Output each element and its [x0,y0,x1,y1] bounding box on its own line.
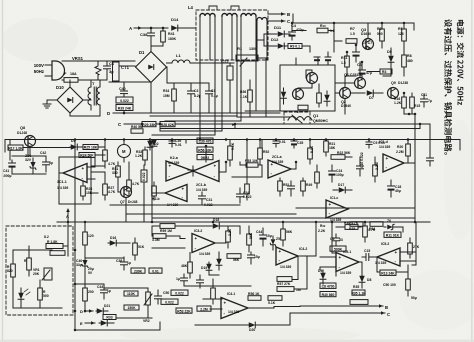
resistor R51b 200 [83,288,88,301]
wire snubber top [166,67,168,83]
svg-text:100µ: 100µ [336,173,344,177]
resistor R30 4.7K [103,150,108,161]
transistor Q7 Dr J48 [121,187,132,198]
capacitor C41 1000u [9,162,16,164]
wire D10 top to AC [69,80,71,87]
svg-text:C44: C44 [256,230,262,234]
op-amp IC1-1 1/4 339 (mirrored) [63,164,87,183]
capacitor C1 3u [106,61,108,66]
svg-text:D: D [80,309,83,314]
capacitor C39 0.01 [169,140,175,142]
svg-text:M: M [122,149,126,154]
wire top rail [293,22,414,24]
wire rail right [333,31,335,52]
svg-text:R34: R34 [163,89,169,93]
svg-text:230K: 230K [134,269,143,273]
wire D1 bottom to D bus [150,83,152,113]
svg-text:B: B [385,305,388,310]
zener ZD1 32V [30,162,36,170]
svg-text:4.7K: 4.7K [108,190,116,194]
svg-text:C6: C6 [357,63,362,67]
op-amp IC1-c [326,200,348,218]
svg-text:500: 500 [43,294,49,298]
svg-text:D16: D16 [110,236,116,240]
svg-text:+: + [279,249,282,254]
svg-text:3C1-1: 3C1-1 [57,180,67,184]
resistor R36 4.7K [345,225,358,230]
resistor R50 5.1K [308,148,313,159]
svg-text:T: T [92,81,95,86]
resistor R22 56K [331,155,345,160]
svg-text:2.2M: 2.2M [375,162,379,170]
resistor R36 1.1K [248,90,253,102]
wire bus mid [160,128,420,130]
svg-text:1/4 339: 1/4 339 [168,161,179,165]
svg-text:1/4 339: 1/4 339 [272,160,283,164]
resistor Rmid2 [197,147,213,152]
wire under IC1-c [296,207,415,209]
wire mid rail 218 [152,217,415,219]
svg-text:D1540: D1540 [341,104,351,108]
svg-text:+: + [386,156,389,161]
capacitor C8 4700 [320,283,336,288]
svg-text:R 1.8K: R 1.8K [47,240,58,244]
svg-text:C42: C42 [40,151,46,155]
svg-text:5V: 5V [88,271,93,275]
wire left mid [12,155,46,157]
svg-text:C: C [387,312,390,317]
svg-text:820: 820 [7,269,13,273]
capacitor C15u [248,254,255,256]
svg-text:D1J38: D1J38 [398,81,408,85]
svg-text:IC5-2: IC5-2 [381,242,389,246]
current transformer CT1 [113,62,120,81]
svg-text:-: - [395,259,397,264]
capacitor C30 47u link [232,176,262,178]
svg-text:R30 4.7K: R30 4.7K [344,221,359,225]
wire IC4-1 in [203,298,222,300]
svg-text:18A: 18A [70,72,77,76]
resistor R40 5M [131,129,143,133]
svg-text:D8: D8 [367,278,371,282]
svg-text:200: 200 [88,290,94,294]
svg-text:126: 126 [398,32,404,36]
node B [268,13,285,15]
resistor R24 50K [79,153,95,158]
svg-text:D: D [107,111,110,116]
resistor Rs 1.8K [46,244,63,249]
svg-text:1000µ: 1000µ [2,174,12,178]
svg-text:110K: 110K [127,292,135,296]
svg-text:150K: 150K [127,306,136,310]
svg-text:120: 120 [88,234,94,238]
svg-text:R32: R32 [320,224,326,228]
svg-text:R33: R33 [106,316,112,320]
resistor R35b 1.1K [352,290,365,295]
wire D20 to C rail [289,314,291,326]
wire igbt stubs [295,58,297,65]
svg-text:33: 33 [339,238,343,242]
wire D5 to R3 row [390,70,392,76]
svg-text:C: C [118,122,122,127]
AC plug P1 [52,61,65,80]
svg-text:8.2: 8.2 [44,235,49,239]
node C bottom [290,312,385,314]
wire opamp feeds [87,166,95,168]
capacitor C18 40u [388,185,395,187]
svg-text:R10: R10 [320,24,326,28]
wire bottom-left links [85,257,124,259]
svg-text:K2-b: K2-b [152,197,160,201]
resistor R104 820 [11,264,16,277]
resistor R28 62K [160,122,175,127]
svg-text:18K: 18K [329,146,336,150]
svg-text:R15: R15 [414,104,420,108]
diode D8 [359,276,365,283]
svg-text:15µ: 15µ [254,255,260,259]
resistor R53 10K [246,163,258,167]
resistor R25 18K [83,145,98,150]
resistor R59 1M [160,224,175,229]
svg-text:L4: L4 [188,5,194,10]
svg-text:VRS1: VRS1 [72,56,84,61]
potentiometer VR1 20K [44,268,52,280]
svg-text:R57 27K: R57 27K [277,282,291,286]
svg-text:D20: D20 [249,328,255,332]
wire D11 D12 feeds [264,33,271,35]
svg-text:-: - [82,175,84,180]
svg-text:+: + [224,300,227,305]
svg-text:R36: R36 [240,90,246,94]
wire Q3 collector to rail [367,23,369,39]
svg-text:1/4 339: 1/4 339 [379,145,390,149]
svg-text:50µ: 50µ [411,296,417,300]
wire R36 links [336,226,345,228]
svg-text:D10: D10 [56,85,64,90]
svg-text:1/4 339: 1/4 339 [228,310,239,314]
capacitor C9 0.01 [366,141,372,143]
op-amp IC5-2 (mirrored) [377,248,400,266]
svg-text:DrJ48: DrJ48 [128,200,138,204]
svg-text:F: F [64,71,67,76]
wire driver joins [404,113,415,115]
wire vertical x75 [74,140,76,331]
wires IGBT internal [311,84,313,89]
capacitor C47 33 [333,237,340,239]
svg-text:Z5: Z5 [276,237,280,241]
svg-text:40µ: 40µ [395,189,401,193]
svg-text:2.2K: 2.2K [318,229,326,233]
capacitor C15 [365,254,367,261]
resistor R29b 5.1K [228,146,233,160]
svg-text:1.2K: 1.2K [394,101,402,105]
svg-text:R11 91K: R11 91K [386,234,400,238]
scan edge artifacts [2,0,4,342]
svg-text:-: - [195,245,197,250]
svg-text:0.022: 0.022 [142,172,146,181]
svg-text:B: B [287,12,290,17]
resistor R102 500 [38,288,43,300]
svg-text:1/4 339: 1/4 339 [280,265,291,269]
op-amp IC1-d [383,154,404,172]
svg-text:IC1-d: IC1-d [379,140,388,144]
svg-text:180K: 180K [168,37,177,41]
svg-text:1µ: 1µ [127,261,131,265]
svg-text:R56 1K: R56 1K [248,292,260,296]
wire IC5-2 in from rail [400,251,416,253]
svg-text:R22 56K: R22 56K [337,151,351,155]
capacitor C49 0.022 [161,299,178,304]
svg-text:R49: R49 [306,183,312,187]
svg-text:+: + [195,236,198,241]
resistor R29 33K [142,122,156,127]
wire right rail bottom [415,222,417,265]
resistor R49 10K [301,181,306,191]
resistor R55 5.1K [268,296,282,301]
svg-text:R52: R52 [263,150,269,154]
diode D2 [147,141,153,148]
svg-text:0.01: 0.01 [279,140,286,144]
svg-text:C31: C31 [206,198,212,202]
svg-text:C50: C50 [163,291,169,295]
svg-text:Q9: Q9 [391,81,396,85]
resistor R26 15K [81,186,86,196]
svg-text:C15: C15 [364,249,370,253]
svg-text:1/4 339: 1/4 339 [340,271,351,275]
svg-text:-: - [279,258,281,263]
svg-text:4.7K: 4.7K [132,182,140,186]
svg-text:D21: D21 [104,304,110,308]
zener Z6 [387,224,394,230]
diode D9b [320,273,326,280]
svg-text:100V: 100V [34,63,44,68]
resistor R48L [152,186,157,196]
wire diode pair join [209,274,219,276]
resistor R17 1.0K [8,145,23,150]
resistor R2.2M [197,306,211,311]
svg-text:3.3M: 3.3M [152,238,160,242]
resistor R15b 50u [406,279,411,290]
svg-text:C38: C38 [116,259,122,263]
wire R13 link [376,266,378,272]
wire IC5-1 in [320,256,336,258]
svg-text:-: - [271,171,273,176]
winding L4-4 [257,18,267,21]
svg-text:D1640: D1640 [361,32,371,36]
resistor R23 [315,172,320,183]
resistor R110K [124,291,138,296]
capacitor C24 100u [329,170,336,172]
svg-text:QM50HC: QM50HC [313,119,328,123]
svg-text:2C1-a: 2C1-a [272,155,282,159]
svg-text:R8: R8 [407,54,412,58]
resistor R46 48K [188,262,193,273]
wire IC1-1 underline [58,182,60,193]
svg-text:+: + [82,166,85,171]
wire R17 to D3 [23,147,70,149]
svg-text:Q7: Q7 [120,200,125,204]
resistor R80 230K [131,268,145,273]
node A arrow into box [67,222,69,226]
resistor R31 330 [116,166,121,177]
op-amp IC1-1 box [59,157,91,204]
svg-text:2.2M: 2.2M [396,150,404,154]
svg-text:R3: R3 [382,70,386,74]
svg-text:0.022: 0.022 [165,301,174,305]
capacitor C36 0.01 [273,140,279,142]
IGBT module Q1 box [280,65,335,111]
diode D16 [110,240,117,246]
wire IC4-2 out [298,255,316,257]
capacitor C33 [288,185,295,187]
junction dots [150,27,153,30]
capacitor C44 1u [101,289,108,291]
wire IC3-2 in [166,235,180,237]
svg-text:7µ: 7µ [428,99,432,103]
svg-text:R20: R20 [397,145,403,149]
wire IC4-1 out to B [248,307,274,309]
wire D10 out [83,99,91,101]
op-amp IC3-2 [192,234,215,253]
svg-text:D17: D17 [338,183,344,187]
svg-text:+: + [214,163,217,168]
svg-text:C44: C44 [97,285,103,289]
svg-text:480: 480 [407,59,413,63]
svg-text:2.2M: 2.2M [200,307,208,311]
svg-text:33µ: 33µ [76,263,82,267]
transistor Q1-a [307,73,318,84]
resistor R43 56K [227,254,241,259]
capacitor C3 8.2u [188,90,195,92]
wire D10 to ground [47,99,57,101]
svg-text:0.01: 0.01 [152,269,159,273]
capacitor C46 [197,279,204,281]
resistor R45 56K [247,234,252,245]
resistor R37 4.7K [363,226,368,237]
capacitor C2 0.1u [206,90,213,92]
wire misc verticals to bus [171,140,173,148]
capacitor C0.022b [155,295,162,297]
resistor R21 18K [324,141,329,152]
resistor R57 27K [277,277,292,282]
resistor R3 [380,69,392,74]
node C [268,20,285,22]
svg-text:0.1µ: 0.1µ [211,94,218,98]
resistor R58 1M [277,287,294,292]
svg-text:4.7K: 4.7K [368,228,376,232]
capacitor C34 0.022 [237,193,244,195]
op-amp IC5-1 [336,253,359,272]
svg-text:C41: C41 [3,169,9,173]
resistor R13 24K [380,270,396,275]
capacitor C43 0.022 [141,170,147,182]
resistor Rb2 [370,222,383,227]
svg-text:48K: 48K [181,264,188,268]
svg-text:D14: D14 [171,17,179,22]
svg-text:+: + [395,250,398,255]
svg-text:-: - [182,195,184,200]
resistor R150K [124,305,139,310]
diode D19 [206,264,212,271]
diode D20 [249,322,256,328]
resistor R19 2.2M [373,165,378,176]
op-amp IC1-b (mirrored) [193,161,219,182]
resistor R9 0.1 [288,44,302,49]
wire Q8 emitter [29,147,31,157]
resistor R70 51K [133,243,138,255]
node B bottom [300,305,383,307]
wire right rail [414,126,416,222]
svg-text:-: - [169,174,171,179]
capacitor C30 470 [197,138,213,143]
svg-text:C50 100: C50 100 [383,283,396,287]
wire IC2 cluster [192,166,194,176]
resistor Rs2 [50,251,65,256]
resistor R40b 860 [320,292,336,297]
resistor R15 [410,97,415,108]
resistor R101 240 [27,258,32,270]
wire vertical x152 [151,140,153,223]
svg-text:R40 860: R40 860 [322,293,335,297]
winding L4-2 [222,14,237,17]
potentiometer VR2 10K [146,292,151,305]
wire rail right drop [459,140,461,151]
zener Z5 [270,239,276,246]
wire Q6 collector up [359,62,361,78]
svg-text:R35: R35 [353,285,359,289]
op-amp IC2-b (mirrored) [165,185,187,202]
resistor R44 2.2K [226,231,231,242]
resistor Rlong [350,300,368,305]
svg-text:D7: D7 [369,96,374,100]
resistor R17b 27K [408,243,413,254]
svg-text:R17 1.0K: R17 1.0K [8,146,23,150]
resistor R11b 91K [384,232,401,237]
svg-text:IC4-2: IC4-2 [299,247,307,251]
resistor R27 4.7K [103,184,108,195]
svg-text:10µ: 10µ [266,234,272,238]
capacitor C0.01 [149,268,162,273]
note: protection description line 2 (rotated CJK) [444,19,452,154]
resistor R-div [245,184,250,194]
svg-text:15M: 15M [163,94,170,98]
svg-text:D12: D12 [271,37,279,42]
transformer T [88,87,91,105]
wire driver to IGBT gate [335,82,355,84]
wire main top rail [5,139,460,141]
transistor Q2 D1540 [340,88,351,99]
svg-text:E: E [80,321,83,326]
diode D18 [213,223,220,229]
resistor R34 15M [172,89,177,101]
svg-text:+: + [339,255,342,260]
svg-text:Z6: Z6 [387,219,391,223]
fuse F 18A [64,78,78,83]
svg-text:1µ: 1µ [107,289,111,293]
resistor R52 10K [258,148,263,159]
wire AC bottom [62,79,64,81]
svg-text:56K: 56K [249,232,253,239]
svg-text:R1: R1 [237,46,243,51]
resistor Rb1 [350,222,363,227]
capacitor C50 0.022 [171,290,188,295]
svg-text:C35: C35 [297,141,303,145]
wire Q2 collector up [344,76,346,88]
svg-text:C1: C1 [211,89,215,93]
wire L4 drops [199,16,201,60]
svg-text:0.022: 0.022 [175,292,184,296]
wires bottom right [359,261,362,263]
